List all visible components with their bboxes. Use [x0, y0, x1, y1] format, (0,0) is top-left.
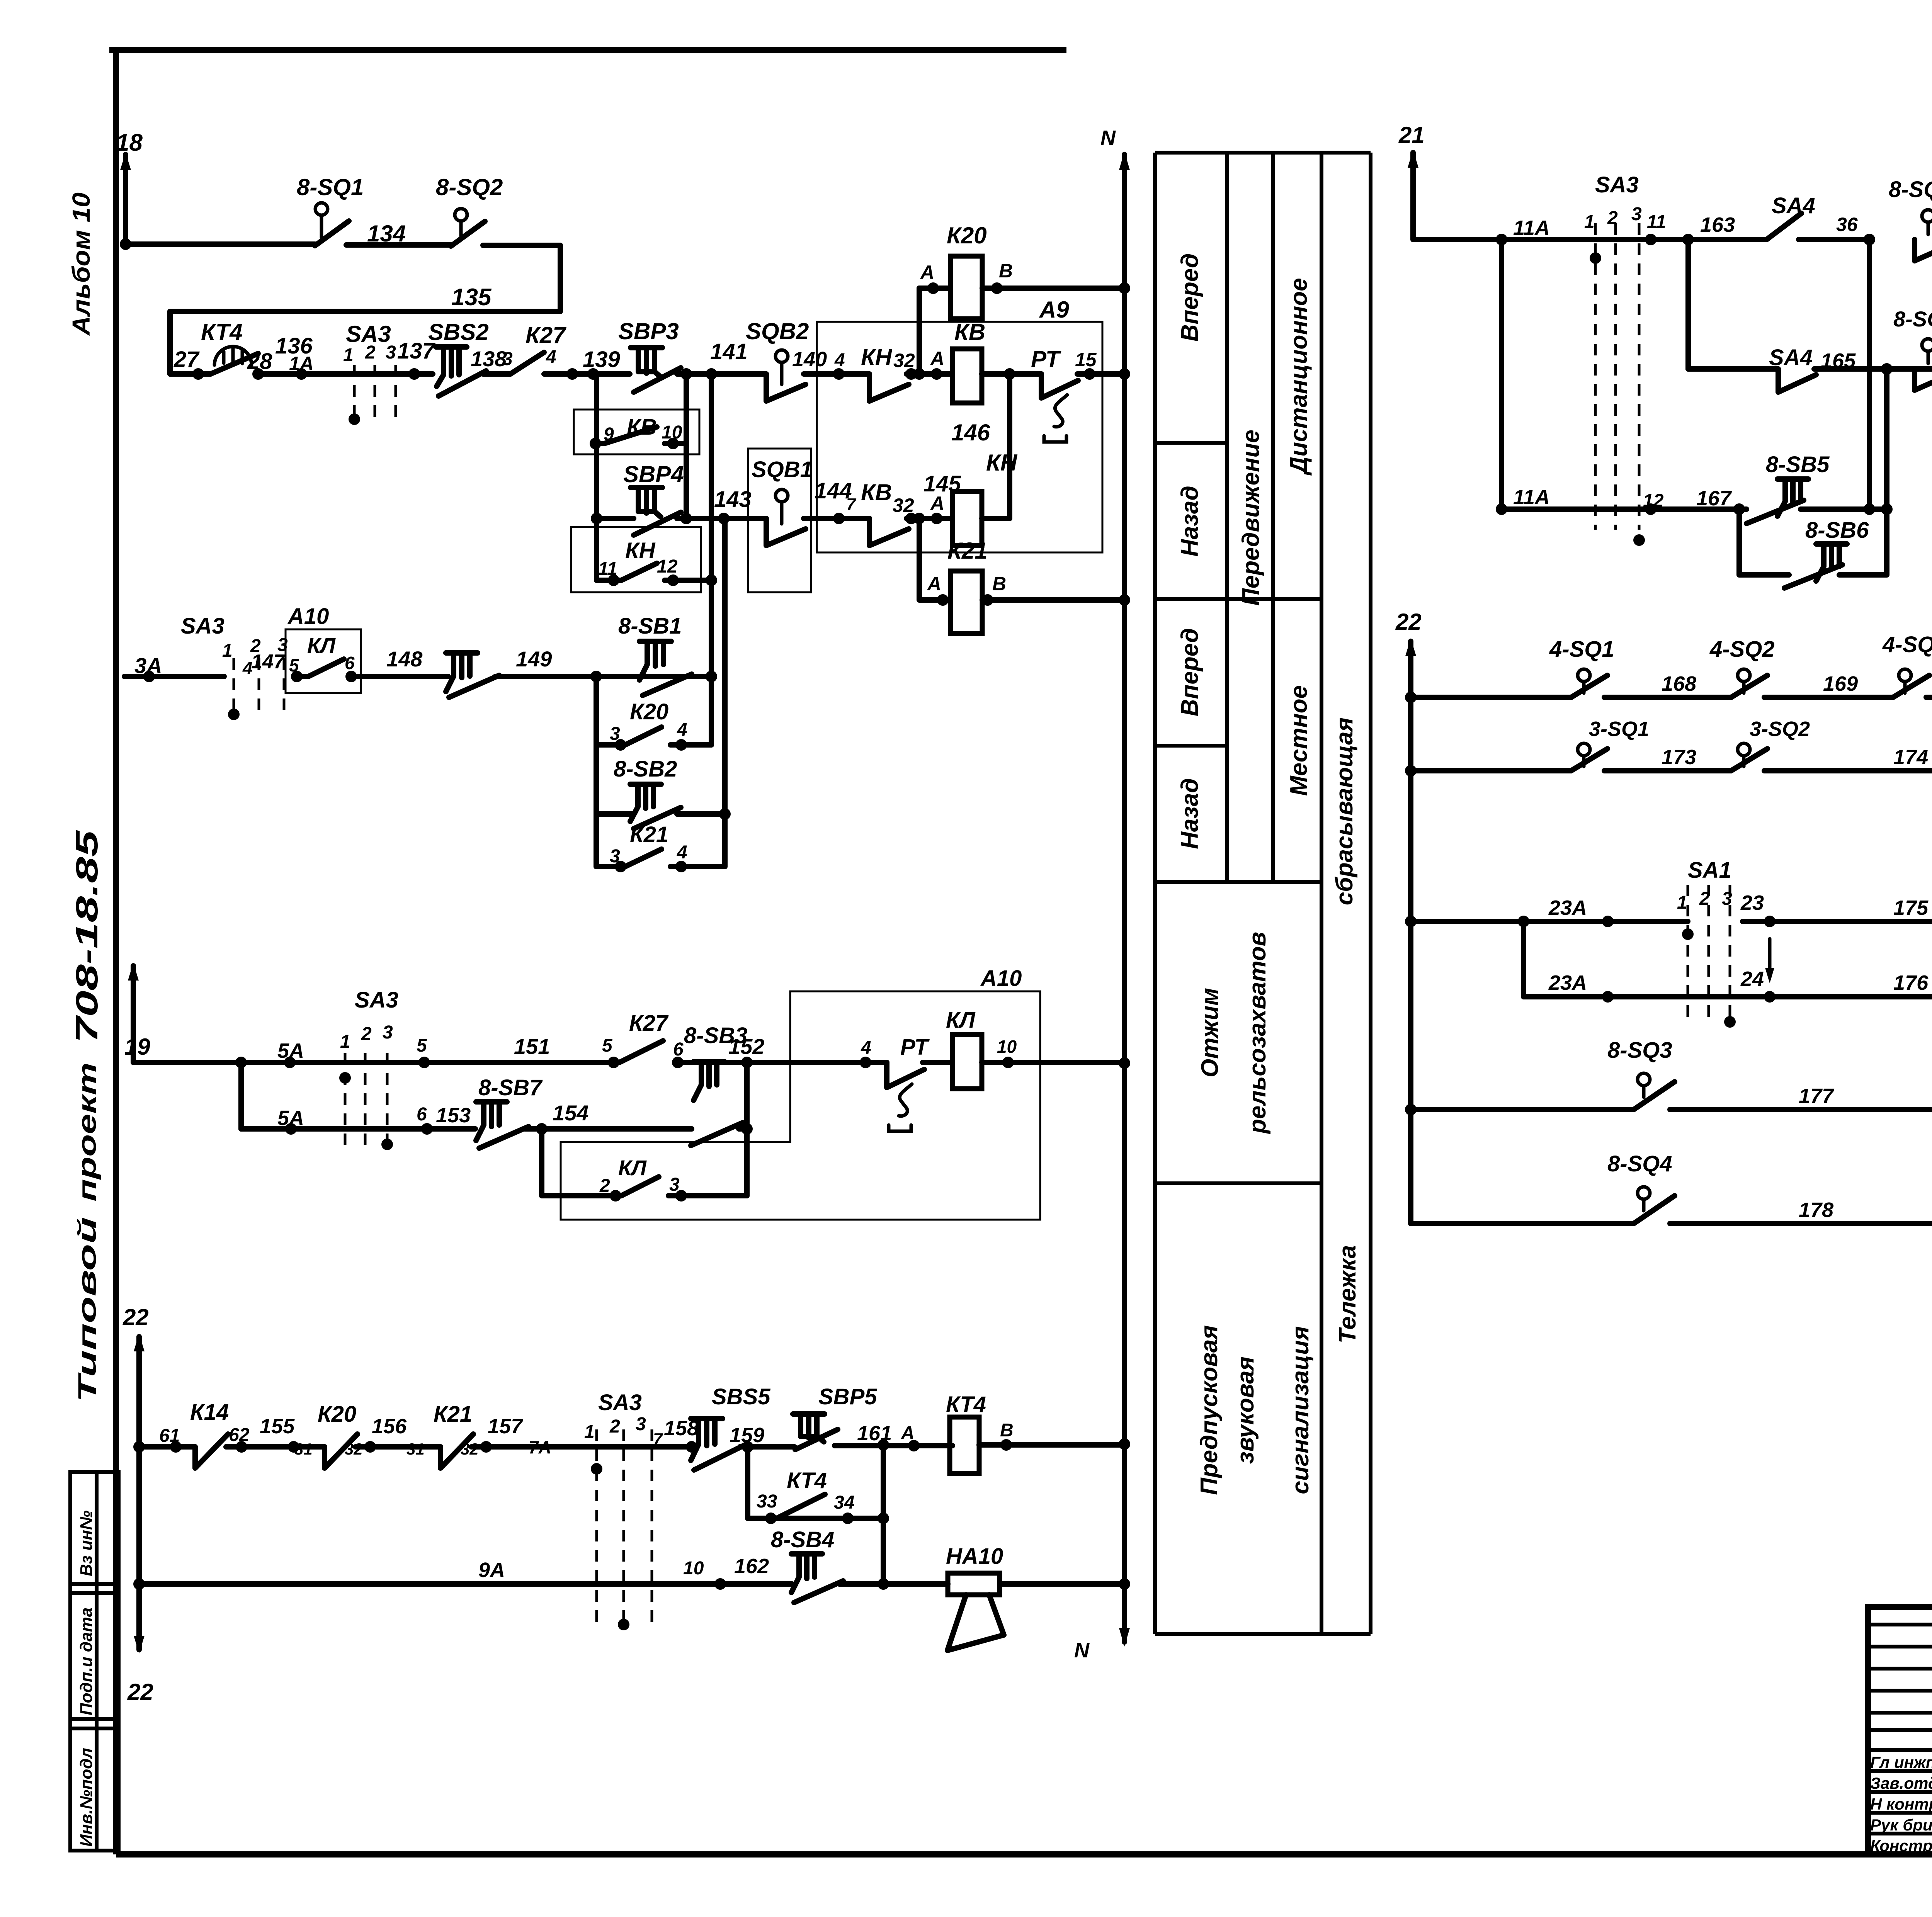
- svg-text:154: 154: [553, 1101, 588, 1125]
- svg-text:2: 2: [361, 1024, 372, 1044]
- svg-text:2: 2: [365, 342, 376, 363]
- svg-text:НА10: НА10: [946, 1544, 1003, 1569]
- coil K21 branch: [919, 518, 1124, 600]
- svg-text:КН: КН: [986, 450, 1018, 476]
- svg-text:31: 31: [406, 1440, 425, 1458]
- svg-text:155: 155: [260, 1415, 295, 1438]
- vertical to 8-SB rows: [1884, 369, 1889, 509]
- svg-text:3: 3: [502, 349, 513, 369]
- svg-text:159: 159: [730, 1424, 764, 1447]
- svg-text:23А: 23А: [1548, 896, 1587, 919]
- svg-text:135: 135: [451, 284, 492, 311]
- contact KB 9-10 box: [574, 410, 699, 454]
- branch to contact KT4 33-34: [748, 1447, 883, 1518]
- wire 135 return: [170, 245, 560, 374]
- svg-text:4: 4: [677, 720, 687, 740]
- svg-text:8-SQ1: 8-SQ1: [297, 174, 364, 200]
- svg-text:22: 22: [1395, 609, 1422, 635]
- svg-text:167: 167: [1696, 487, 1732, 510]
- svg-text:22: 22: [127, 1679, 153, 1705]
- svg-text:708-18.85: 708-18.85: [70, 830, 104, 1043]
- svg-text:SA3: SA3: [1595, 172, 1639, 197]
- svg-text:151: 151: [514, 1034, 550, 1059]
- svg-text:8-SB3: 8-SB3: [684, 1023, 747, 1048]
- node 11A lower: [1499, 240, 1504, 509]
- svg-text:Инв.№подл: Инв.№подл: [77, 1748, 96, 1847]
- svg-text:SA3: SA3: [598, 1390, 642, 1415]
- contact KH 11-12 box: [571, 527, 701, 592]
- wire row 9A: [139, 1581, 792, 1587]
- svg-text:19: 19: [124, 1034, 150, 1060]
- title block outline: [1868, 1607, 1932, 1854]
- wire 148: [351, 674, 448, 679]
- limit switch SQB1 box: [748, 449, 811, 592]
- svg-text:Назад: Назад: [1177, 778, 1203, 849]
- wire row 176: [1524, 921, 1932, 997]
- svg-text:Тележка: Тележка: [1334, 1245, 1361, 1343]
- svg-text:8-SB1: 8-SB1: [618, 614, 682, 639]
- vertical conductor V1: [709, 374, 714, 745]
- coil K21: [951, 571, 982, 634]
- svg-text:7: 7: [846, 495, 857, 514]
- wire KT4 rail left: [170, 371, 211, 377]
- svg-text:сигнализация: сигнализация: [1287, 1326, 1314, 1494]
- svg-text:1: 1: [343, 345, 354, 365]
- border frame top: [109, 47, 1066, 53]
- vertical 11 to SA4 row: [1685, 240, 1691, 369]
- svg-text:33: 33: [757, 1491, 777, 1512]
- wire 139: [544, 371, 630, 377]
- svg-text:156: 156: [372, 1415, 407, 1438]
- node 11A upper: [1496, 234, 1507, 245]
- wire row 163: [1502, 237, 1767, 242]
- node 28: [252, 368, 264, 380]
- svg-text:SQB1: SQB1: [752, 457, 813, 482]
- svg-text:Дистанционное: Дистанционное: [1286, 278, 1312, 476]
- wire 152: [678, 1060, 887, 1065]
- svg-text:SBP5: SBP5: [818, 1384, 877, 1409]
- svg-text:3: 3: [1631, 204, 1642, 224]
- svg-text:8-SQ2: 8-SQ2: [436, 174, 503, 200]
- vertical conductor left of SBP block: [594, 374, 599, 580]
- border frame bottom: [116, 1851, 1932, 1858]
- title block signature rows: [1868, 1625, 1932, 1834]
- coil K20: [951, 256, 982, 319]
- svg-text:162: 162: [734, 1555, 769, 1578]
- svg-text:1А: 1А: [289, 353, 314, 374]
- svg-text:КН: КН: [625, 538, 656, 563]
- svg-text:4: 4: [861, 1038, 871, 1058]
- svg-text:SA1: SA1: [1688, 858, 1731, 883]
- wire row 172: [1411, 695, 1571, 700]
- svg-text:SA3: SA3: [181, 614, 224, 639]
- svg-text:169: 169: [1823, 672, 1858, 695]
- svg-text:SA3: SA3: [355, 987, 398, 1013]
- svg-text:3-SQ2: 3-SQ2: [1750, 717, 1810, 741]
- svg-text:34: 34: [834, 1492, 854, 1513]
- svg-text:4-SQ1: 4-SQ1: [1549, 637, 1614, 662]
- svg-text:КЛ: КЛ: [946, 1008, 976, 1033]
- box A10 contact KL 5-6: [286, 629, 361, 693]
- svg-text:Н контр: Н контр: [1870, 1795, 1932, 1813]
- svg-text:Вперед: Вперед: [1177, 253, 1203, 342]
- svg-text:5: 5: [602, 1035, 613, 1056]
- svg-text:8-SB7: 8-SB7: [478, 1075, 543, 1100]
- svg-text:6: 6: [417, 1104, 427, 1125]
- wire row 134: [126, 241, 315, 247]
- svg-text:22: 22: [122, 1304, 149, 1330]
- svg-text:36: 36: [1836, 214, 1858, 235]
- svg-text:SBP3: SBP3: [618, 318, 679, 344]
- svg-text:Рук бриг: Рук бриг: [1870, 1816, 1932, 1834]
- svg-text:143: 143: [714, 487, 752, 512]
- wire row KT4 start: [139, 1444, 195, 1450]
- wire 141: [677, 371, 766, 377]
- svg-text:проект: проект: [73, 1062, 101, 1202]
- svg-text:РТ: РТ: [1031, 346, 1061, 372]
- svg-text:153: 153: [436, 1104, 471, 1127]
- svg-text:6: 6: [345, 653, 355, 673]
- svg-text:SBP4: SBP4: [623, 461, 684, 487]
- svg-text:175: 175: [1893, 896, 1929, 919]
- svg-text:N: N: [1074, 1639, 1090, 1662]
- svg-text:В: В: [992, 573, 1006, 595]
- svg-text:11А: 11А: [1513, 486, 1550, 509]
- svg-text:РТ: РТ: [900, 1035, 930, 1060]
- border frame left: [113, 49, 119, 1854]
- svg-text:КЛ: КЛ: [618, 1156, 647, 1180]
- svg-text:1: 1: [1584, 212, 1595, 232]
- svg-text:2: 2: [609, 1416, 620, 1437]
- svg-text:Местное: Местное: [1286, 685, 1312, 796]
- svg-text:1: 1: [584, 1422, 595, 1442]
- branch split vertical: [238, 1062, 244, 1129]
- svg-text:А: А: [930, 348, 944, 369]
- svg-text:148: 148: [386, 647, 423, 671]
- svg-text:А: А: [927, 573, 941, 595]
- svg-text:10: 10: [683, 1558, 704, 1579]
- svg-text:КВ: КВ: [954, 319, 985, 345]
- coil K20 branch: [917, 288, 922, 374]
- svg-text:178: 178: [1799, 1198, 1833, 1222]
- wire row 143: [597, 516, 766, 521]
- svg-text:1: 1: [1677, 892, 1687, 913]
- box A10 outline: [561, 991, 1040, 1220]
- wire row 167: [1502, 506, 1747, 512]
- svg-text:Предпусковая: Предпусковая: [1196, 1325, 1223, 1495]
- loop to contact KL 2-3: [542, 1129, 616, 1196]
- svg-text:3-SQ1: 3-SQ1: [1589, 717, 1649, 741]
- svg-text:23: 23: [1740, 891, 1764, 914]
- svg-text:А10: А10: [980, 966, 1022, 991]
- vertical 36 down: [1867, 240, 1872, 509]
- svg-text:К27: К27: [526, 322, 566, 348]
- node 27: [192, 368, 204, 380]
- svg-text:21: 21: [1398, 122, 1425, 148]
- svg-text:140: 140: [792, 348, 827, 371]
- svg-text:146: 146: [951, 420, 990, 445]
- svg-text:КВ: КВ: [861, 479, 892, 505]
- svg-text:3: 3: [386, 342, 396, 363]
- svg-text:5: 5: [417, 1035, 427, 1056]
- svg-text:В: В: [999, 260, 1013, 282]
- svg-text:6: 6: [673, 1039, 684, 1060]
- vertical conductor x1776: [684, 374, 689, 518]
- svg-text:рельсозахватов: рельсозахватов: [1244, 932, 1271, 1134]
- wire 136: [258, 371, 433, 377]
- svg-text:8-SB2: 8-SB2: [614, 756, 677, 782]
- svg-text:Зав.отд.: Зав.отд.: [1870, 1774, 1932, 1792]
- svg-text:SQB2: SQB2: [746, 318, 809, 344]
- svg-text:8-SQ4: 8-SQ4: [1893, 307, 1932, 331]
- svg-text:8-SQ3: 8-SQ3: [1607, 1038, 1672, 1063]
- svg-text:SBS5: SBS5: [712, 1384, 770, 1409]
- svg-text:Подп.и дата: Подп.и дата: [77, 1608, 96, 1715]
- svg-text:24: 24: [1740, 967, 1764, 991]
- wire row 173: [1411, 768, 1571, 773]
- wire row 177: [1411, 1107, 1634, 1112]
- node J1: [1004, 368, 1015, 380]
- svg-text:8-SB6: 8-SB6: [1805, 518, 1869, 543]
- svg-text:А: А: [930, 493, 944, 514]
- svg-text:К21: К21: [630, 822, 668, 847]
- middle legend table: [1155, 153, 1371, 1634]
- wire 134: [346, 242, 451, 248]
- svg-text:Отжим: Отжим: [1197, 988, 1223, 1077]
- svg-text:Назад: Назад: [1177, 486, 1203, 557]
- svg-text:SA4: SA4: [1769, 345, 1813, 370]
- arrow marker below 23: [1768, 939, 1772, 977]
- svg-text:К21: К21: [947, 538, 988, 564]
- svg-text:Гл инжпр: Гл инжпр: [1870, 1753, 1932, 1771]
- svg-text:А9: А9: [1039, 297, 1069, 323]
- wire 149: [495, 674, 711, 679]
- wire row 165: [1688, 366, 1778, 372]
- svg-text:141: 141: [710, 339, 748, 364]
- vertical 152 to KL row: [744, 1062, 750, 1196]
- svg-text:61: 61: [159, 1426, 180, 1446]
- svg-text:N: N: [1100, 126, 1116, 150]
- svg-text:163: 163: [1700, 213, 1735, 236]
- pushbutton 8-SB7 row147: [446, 653, 478, 692]
- svg-text:18: 18: [116, 129, 143, 156]
- svg-text:КТ4: КТ4: [201, 319, 243, 345]
- svg-text:К27: К27: [629, 1011, 669, 1036]
- svg-text:8-SQ4: 8-SQ4: [1607, 1151, 1672, 1176]
- svg-text:32: 32: [893, 350, 915, 371]
- svg-text:К20: К20: [630, 699, 668, 724]
- svg-text:15: 15: [1075, 349, 1097, 370]
- svg-text:157: 157: [488, 1415, 524, 1438]
- svg-text:1: 1: [340, 1032, 350, 1052]
- svg-text:138: 138: [471, 347, 507, 371]
- svg-text:4-SQ3: 4-SQ3: [1882, 632, 1932, 657]
- N bus left: [1122, 155, 1127, 1642]
- svg-text:11: 11: [1647, 212, 1666, 232]
- svg-text:176: 176: [1893, 971, 1929, 994]
- svg-text:8-SB5: 8-SB5: [1766, 452, 1830, 477]
- svg-text:134: 134: [367, 221, 406, 246]
- svg-text:27: 27: [173, 347, 200, 372]
- svg-text:SBS2: SBS2: [428, 319, 489, 345]
- svg-text:К20: К20: [947, 223, 987, 248]
- svg-text:1: 1: [222, 641, 233, 661]
- bottom-left stamp table: [70, 1472, 119, 1851]
- svg-text:звуковая: звуковая: [1232, 1356, 1259, 1464]
- svg-text:139: 139: [583, 347, 620, 372]
- parallel group left conductor: [594, 676, 599, 867]
- wire row 178: [1411, 1221, 1634, 1226]
- svg-text:4-SQ2: 4-SQ2: [1709, 637, 1775, 662]
- svg-text:КН: КН: [861, 344, 893, 370]
- svg-text:3: 3: [383, 1022, 393, 1043]
- svg-text:9А: 9А: [478, 1558, 505, 1582]
- svg-text:Альбом 10: Альбом 10: [67, 192, 95, 336]
- svg-text:SA4: SA4: [1772, 193, 1815, 218]
- svg-text:28: 28: [247, 349, 272, 374]
- svg-text:КТ4: КТ4: [946, 1392, 986, 1417]
- node 1A: [296, 368, 307, 380]
- svg-text:8-SB4: 8-SB4: [771, 1527, 834, 1552]
- svg-text:Типовой: Типовой: [73, 1217, 101, 1402]
- svg-text:173: 173: [1662, 746, 1696, 769]
- svg-text:КТ4: КТ4: [787, 1468, 827, 1493]
- svg-text:К14: К14: [190, 1400, 229, 1425]
- svg-text:3: 3: [636, 1414, 646, 1434]
- vertical conductor V2: [722, 518, 728, 867]
- svg-text:174: 174: [1893, 746, 1928, 769]
- svg-text:4: 4: [677, 842, 687, 863]
- svg-text:147: 147: [251, 651, 286, 673]
- vertical 161 branch: [881, 1445, 886, 1584]
- svg-text:Вз ин№: Вз ин№: [77, 1511, 96, 1576]
- wire 138: [483, 371, 510, 377]
- svg-text:10: 10: [997, 1037, 1017, 1057]
- svg-text:12: 12: [657, 556, 678, 577]
- svg-text:сбрасывающая: сбрасывающая: [1331, 717, 1358, 905]
- svg-text:11А: 11А: [1513, 216, 1550, 240]
- svg-text:В: В: [1000, 1420, 1014, 1441]
- wire row 175: [1411, 919, 1688, 924]
- svg-text:К20: К20: [318, 1402, 356, 1427]
- svg-text:Передвижение: Передвижение: [1238, 430, 1264, 606]
- node 4: [833, 368, 845, 380]
- svg-text:КЛ: КЛ: [307, 633, 336, 658]
- box A9: [817, 322, 1102, 552]
- svg-text:К21: К21: [434, 1402, 472, 1427]
- wire 158: [556, 1444, 692, 1450]
- svg-text:2: 2: [599, 1176, 610, 1196]
- svg-text:4: 4: [834, 350, 845, 370]
- svg-text:Констр.: Констр.: [1870, 1837, 1932, 1855]
- svg-text:Вперед: Вперед: [1177, 628, 1203, 717]
- svg-text:4: 4: [546, 347, 556, 367]
- svg-text:177: 177: [1799, 1084, 1835, 1108]
- svg-text:62: 62: [229, 1425, 250, 1445]
- svg-text:7А: 7А: [529, 1437, 551, 1457]
- svg-text:168: 168: [1662, 672, 1696, 695]
- svg-text:А10: А10: [287, 604, 329, 629]
- svg-text:149: 149: [516, 647, 552, 671]
- svg-text:23А: 23А: [1548, 971, 1587, 994]
- bus 18 arrow: [123, 155, 128, 244]
- svg-text:8-SQ3: 8-SQ3: [1889, 177, 1932, 202]
- svg-text:А: А: [920, 262, 934, 283]
